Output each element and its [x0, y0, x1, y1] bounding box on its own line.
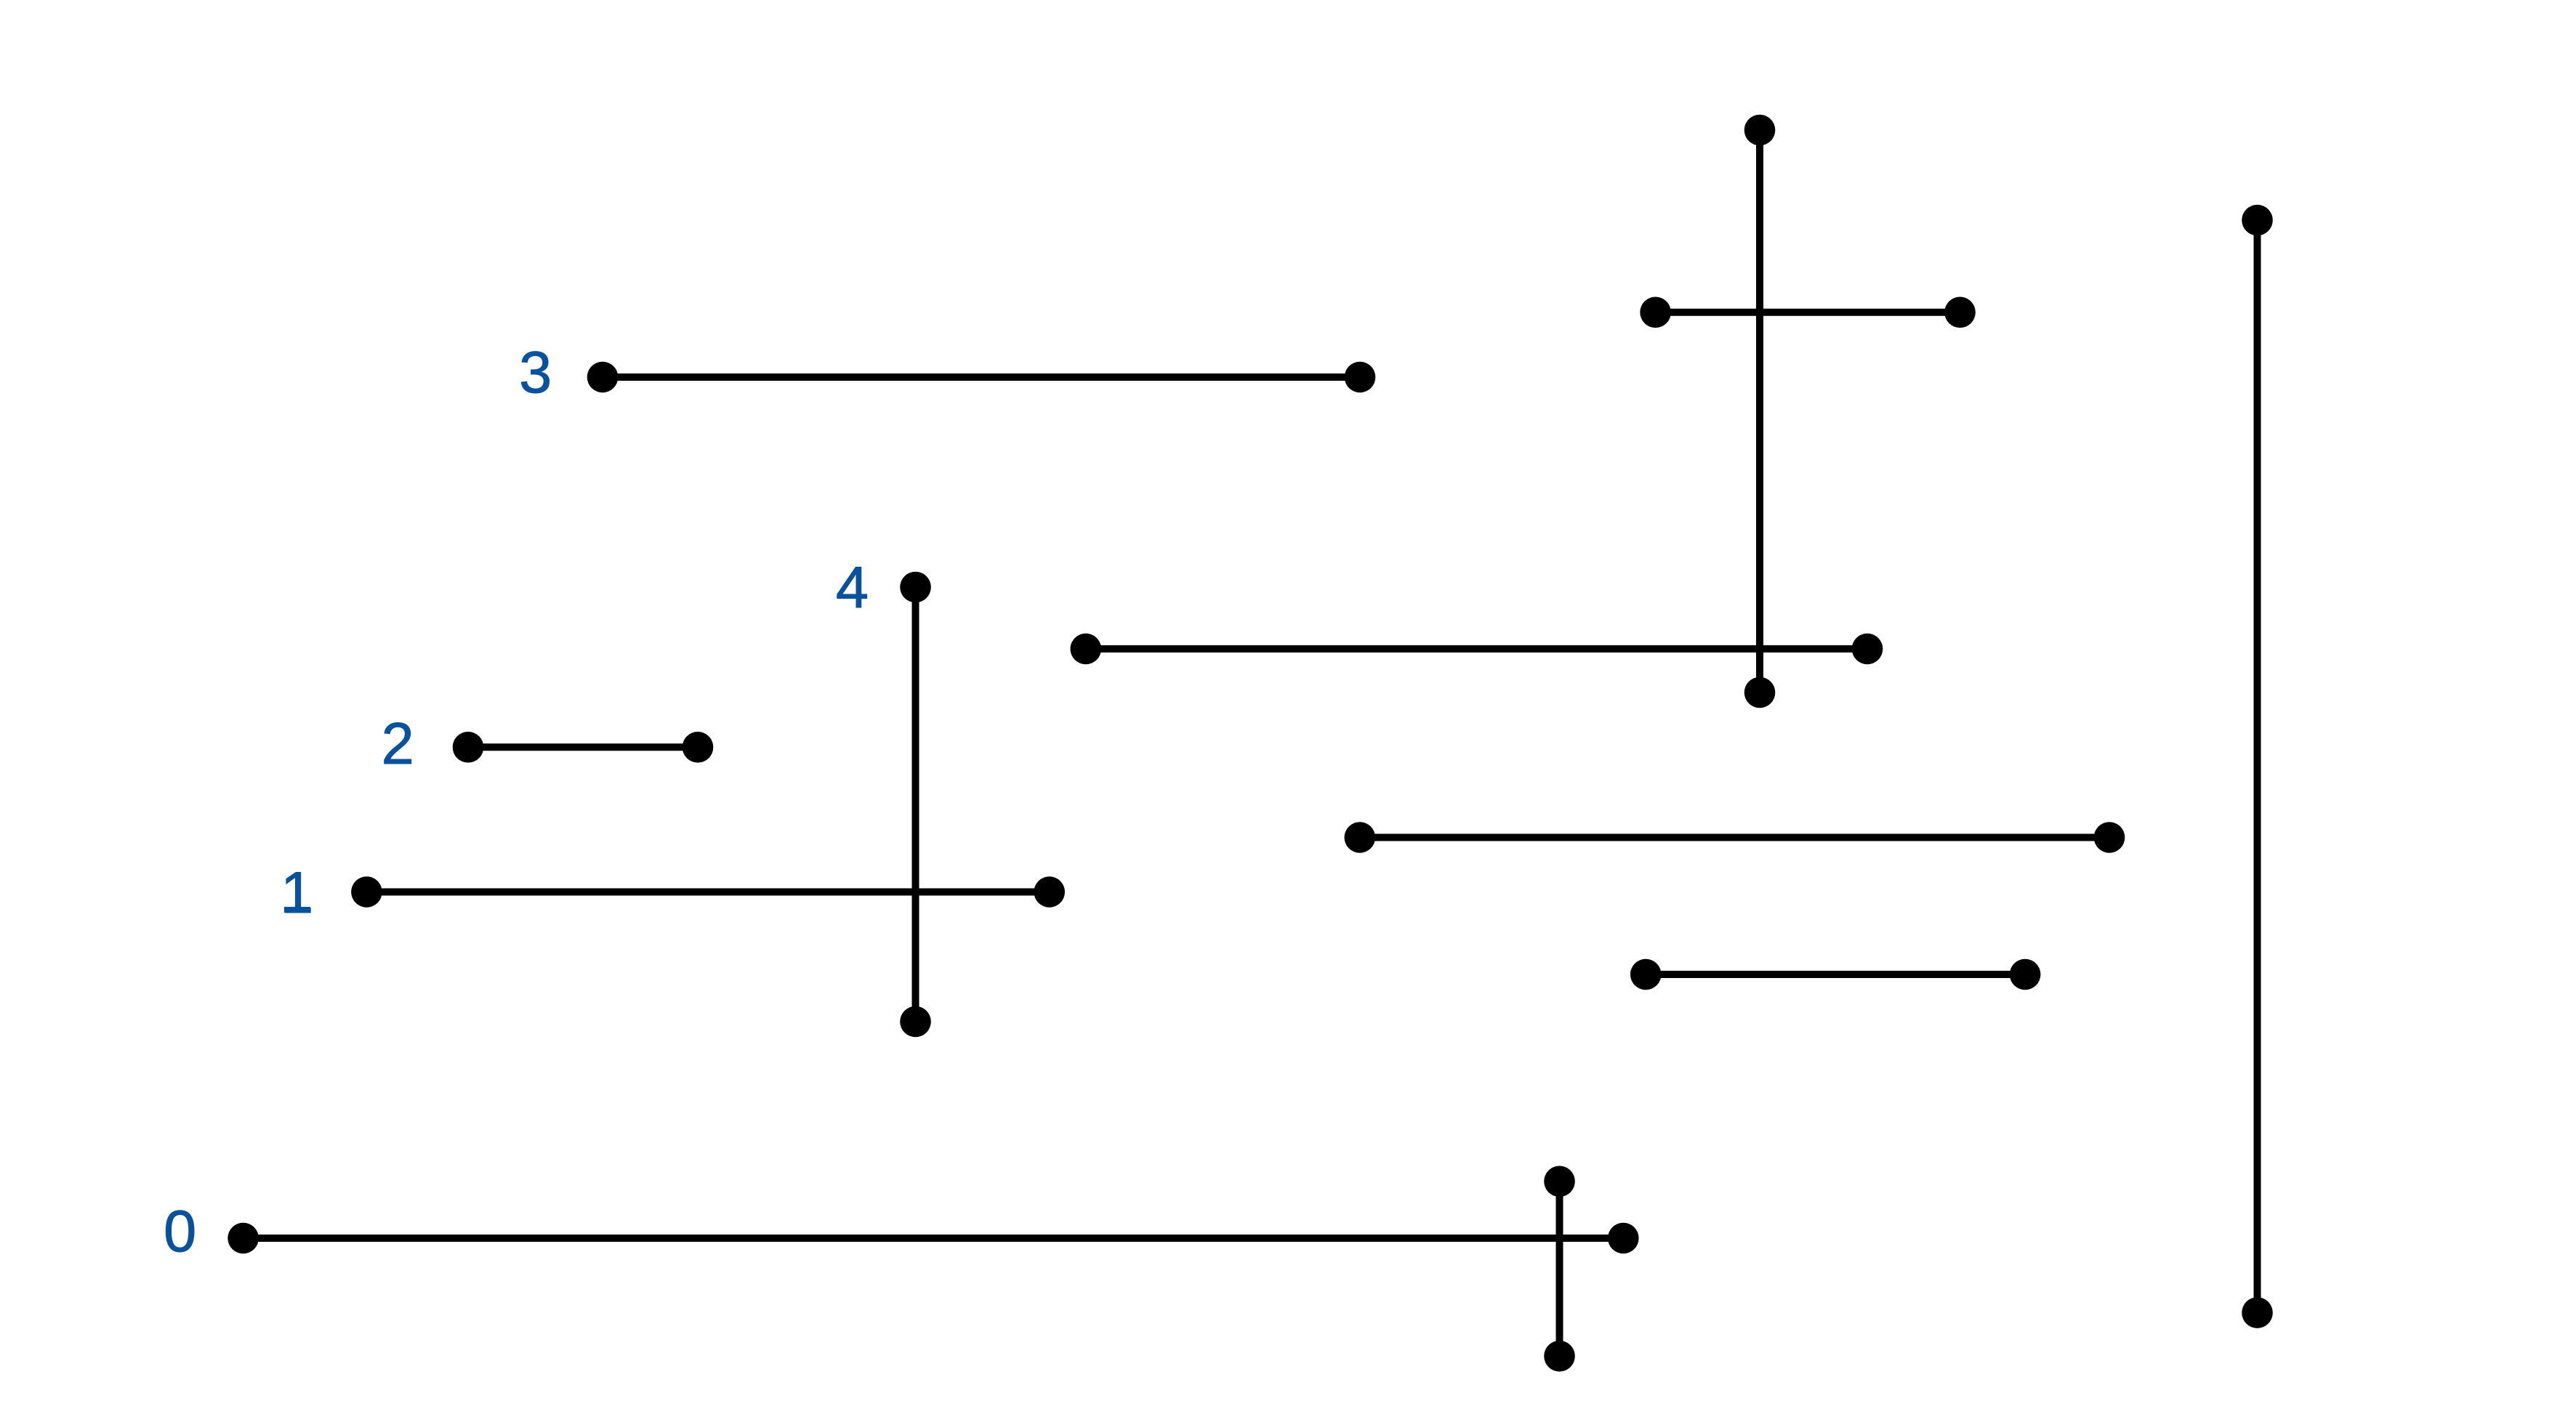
label 2	[382, 711, 414, 777]
vertical segment V3 (small, crosses segment 0)	[1544, 1166, 1575, 1372]
segment 4 (vertical)	[900, 572, 931, 1038]
horizontal segment H4	[1630, 959, 2041, 990]
segment 0	[228, 1223, 1638, 1254]
svg-text:2: 2	[382, 711, 414, 777]
svg-text:1: 1	[281, 860, 313, 926]
horizontal segment H1 (crossing V1)	[1640, 297, 1976, 328]
label 4	[836, 555, 869, 621]
segment 2	[453, 732, 714, 763]
label 3	[519, 340, 552, 405]
vertical segment V2 (tall right)	[2242, 205, 2273, 1328]
horizontal segment H3	[1345, 822, 2125, 853]
vertical segment V1 (top right cross)	[1744, 115, 1776, 708]
segment 3	[587, 362, 1376, 393]
segment 1	[351, 876, 1065, 908]
label 0	[164, 1199, 196, 1264]
svg-text:0: 0	[164, 1199, 196, 1264]
label 1	[281, 860, 313, 926]
svg-text:3: 3	[519, 340, 552, 405]
svg-text:4: 4	[836, 555, 869, 621]
horizontal segment H2 (middle, crosses V1)	[1071, 634, 1883, 665]
